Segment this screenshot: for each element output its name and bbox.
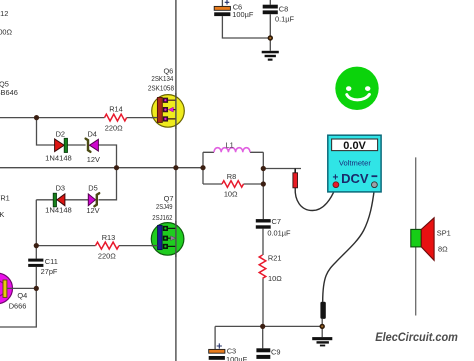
svg-text:0.01µF: 0.01µF — [267, 229, 291, 238]
svg-text:2SB646: 2SB646 — [0, 88, 18, 97]
svg-text:10Ω: 10Ω — [224, 190, 238, 199]
svg-text:2SJ162: 2SJ162 — [152, 213, 172, 222]
svg-text:220Ω: 220Ω — [98, 251, 116, 260]
svg-text:DCV: DCV — [341, 171, 369, 186]
svg-text:C8: C8 — [279, 4, 288, 13]
svg-text:0.1µF: 0.1µF — [275, 15, 295, 24]
svg-text:R12: R12 — [0, 9, 8, 18]
svg-text:D5: D5 — [88, 183, 97, 192]
svg-text:100Ω: 100Ω — [0, 28, 13, 37]
svg-text:220Ω: 220Ω — [105, 123, 123, 132]
svg-text:D3: D3 — [56, 183, 65, 192]
svg-text:100µF: 100µF — [226, 355, 248, 361]
svg-text:C9: C9 — [271, 347, 280, 356]
svg-text:0.0V: 0.0V — [343, 140, 366, 152]
svg-text:L1: L1 — [225, 141, 233, 150]
svg-text:10K: 10K — [0, 210, 4, 219]
svg-text:SP1: SP1 — [437, 228, 451, 237]
svg-text:2SK1058: 2SK1058 — [148, 83, 174, 92]
svg-text:C7: C7 — [272, 217, 281, 226]
svg-text:27pF: 27pF — [41, 267, 58, 276]
svg-text:10Ω: 10Ω — [268, 274, 282, 283]
svg-text:2SJ49: 2SJ49 — [156, 202, 173, 211]
svg-text:12V: 12V — [87, 155, 100, 164]
svg-text:ElecCircuit.com: ElecCircuit.com — [375, 330, 458, 344]
svg-text:1N4148: 1N4148 — [45, 206, 72, 215]
svg-text:8Ω: 8Ω — [438, 244, 448, 253]
svg-text:C11: C11 — [45, 257, 58, 266]
svg-text:Q5: Q5 — [0, 79, 9, 88]
svg-text:R13: R13 — [102, 233, 116, 242]
svg-text:2SK134: 2SK134 — [151, 74, 173, 83]
svg-text:12V: 12V — [86, 206, 99, 215]
svg-text:Q4: Q4 — [17, 291, 27, 300]
svg-text:D2: D2 — [56, 129, 65, 138]
svg-text:VR1: VR1 — [0, 194, 10, 203]
svg-text:D666: D666 — [9, 302, 27, 311]
svg-text:R14: R14 — [109, 104, 123, 113]
svg-text:Voltmeter: Voltmeter — [339, 159, 371, 168]
svg-text:1N4148: 1N4148 — [45, 153, 72, 162]
svg-text:D4: D4 — [87, 129, 96, 138]
svg-text:100µF: 100µF — [232, 10, 254, 19]
svg-text:R21: R21 — [268, 254, 282, 263]
svg-text:R8: R8 — [227, 172, 236, 181]
